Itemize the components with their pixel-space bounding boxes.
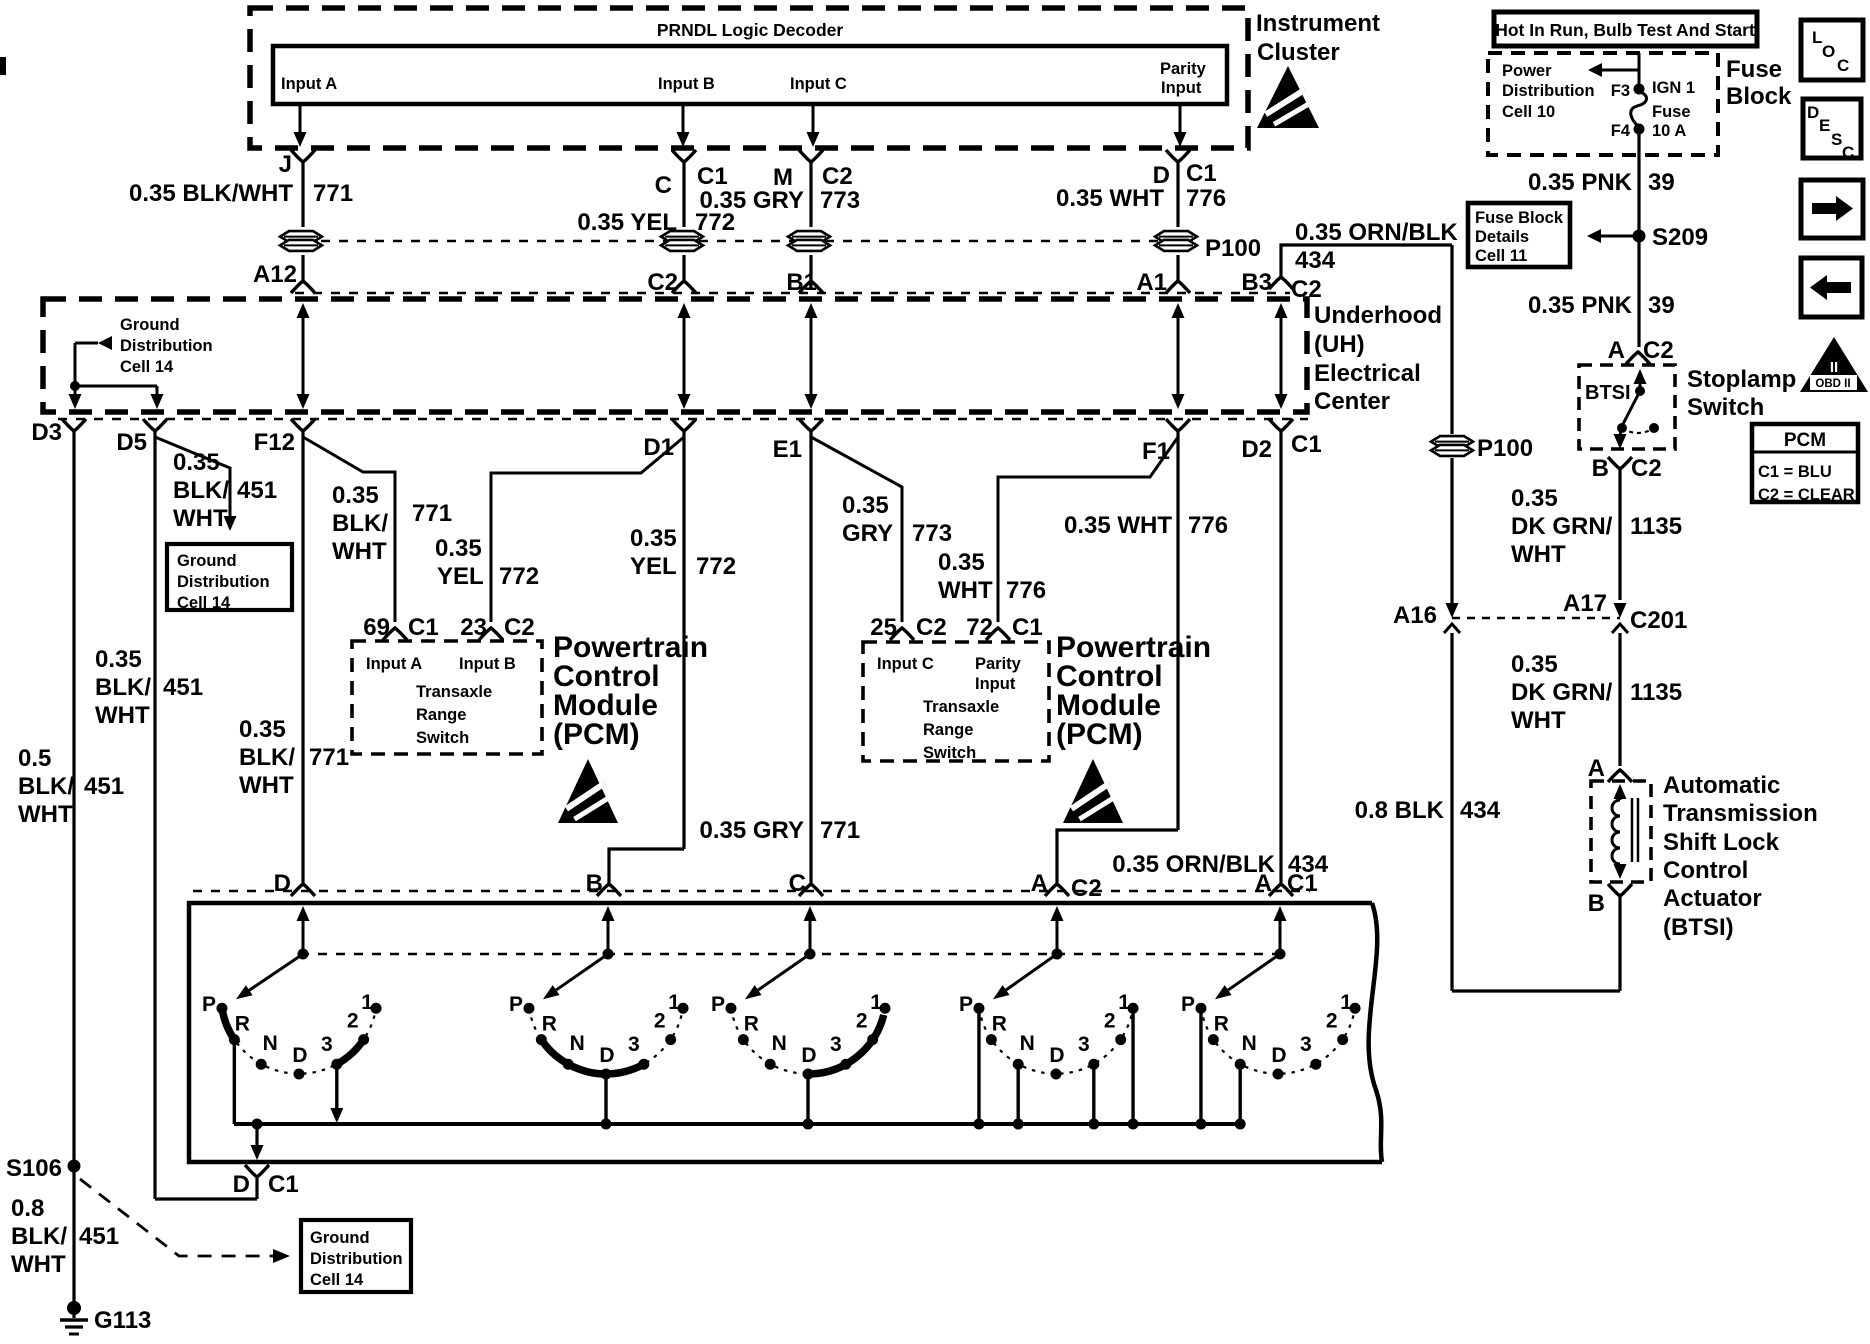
svg-text:451: 451 bbox=[84, 773, 124, 800]
svg-text:Power: Power bbox=[1502, 62, 1552, 80]
svg-text:N: N bbox=[772, 1032, 787, 1055]
svg-text:773: 773 bbox=[912, 520, 952, 547]
svg-text:A17: A17 bbox=[1563, 590, 1607, 617]
svg-text:DK GRN/: DK GRN/ bbox=[1511, 679, 1613, 706]
svg-text:J: J bbox=[279, 151, 292, 178]
svg-text:Stoplamp: Stoplamp bbox=[1687, 366, 1796, 393]
svg-text:N: N bbox=[263, 1032, 278, 1055]
svg-text:PRNDL Logic Decoder: PRNDL Logic Decoder bbox=[657, 20, 844, 40]
svg-text:0.35: 0.35 bbox=[435, 535, 482, 562]
svg-text:WHT: WHT bbox=[1511, 541, 1566, 568]
svg-text:C1: C1 bbox=[268, 1171, 299, 1198]
svg-text:A16: A16 bbox=[1393, 602, 1437, 629]
svg-text:451: 451 bbox=[79, 1223, 119, 1250]
svg-text:25: 25 bbox=[870, 614, 897, 641]
svg-text:C2 = CLEAR: C2 = CLEAR bbox=[1758, 486, 1855, 504]
svg-text:E1: E1 bbox=[773, 436, 802, 463]
svg-text:DK GRN/: DK GRN/ bbox=[1511, 513, 1613, 540]
svg-text:Input A: Input A bbox=[281, 75, 337, 93]
svg-text:1135: 1135 bbox=[1630, 513, 1682, 540]
svg-text:R: R bbox=[1214, 1013, 1229, 1036]
svg-text:F12: F12 bbox=[254, 429, 295, 456]
svg-text:C1: C1 bbox=[1186, 160, 1217, 187]
svg-text:GRY: GRY bbox=[842, 520, 893, 547]
svg-text:451: 451 bbox=[237, 477, 277, 504]
svg-text:0.35 WHT: 0.35 WHT bbox=[1064, 512, 1172, 539]
svg-text:Input B: Input B bbox=[459, 655, 516, 673]
svg-text:Electrical: Electrical bbox=[1314, 360, 1421, 387]
svg-text:BLK/: BLK/ bbox=[173, 477, 229, 504]
svg-text:3: 3 bbox=[321, 1033, 333, 1056]
svg-text:Ground: Ground bbox=[120, 316, 180, 334]
svg-text:WHT: WHT bbox=[332, 538, 387, 565]
svg-text:Parity: Parity bbox=[1160, 60, 1207, 78]
svg-text:WHT: WHT bbox=[18, 801, 73, 828]
svg-text:WHT: WHT bbox=[11, 1251, 66, 1278]
svg-text:Distribution: Distribution bbox=[310, 1250, 403, 1268]
svg-text:0.35: 0.35 bbox=[332, 482, 379, 509]
svg-text:10 A: 10 A bbox=[1652, 122, 1686, 140]
svg-text:OBD II: OBD II bbox=[1815, 378, 1850, 390]
svg-text:Ground: Ground bbox=[310, 1229, 370, 1247]
svg-text:0.35 GRY: 0.35 GRY bbox=[700, 817, 805, 844]
svg-text:C: C bbox=[1837, 56, 1849, 75]
svg-text:Switch: Switch bbox=[416, 729, 469, 747]
svg-text:0.35 GRY: 0.35 GRY bbox=[700, 187, 805, 214]
svg-text:A12: A12 bbox=[253, 261, 297, 288]
svg-text:Cell 14: Cell 14 bbox=[177, 594, 231, 612]
svg-text:R: R bbox=[542, 1013, 557, 1036]
svg-text:39: 39 bbox=[1648, 169, 1675, 196]
svg-text:A: A bbox=[1031, 870, 1048, 897]
svg-text:3: 3 bbox=[1300, 1033, 1312, 1056]
svg-text:0.35: 0.35 bbox=[1511, 485, 1558, 512]
svg-text:Fuse Block: Fuse Block bbox=[1475, 209, 1564, 227]
svg-text:0.5: 0.5 bbox=[18, 745, 51, 772]
svg-text:776: 776 bbox=[1188, 512, 1228, 539]
svg-text:39: 39 bbox=[1648, 292, 1675, 319]
svg-text:C201: C201 bbox=[1630, 607, 1687, 634]
svg-text:F1: F1 bbox=[1142, 438, 1170, 465]
svg-text:C2: C2 bbox=[822, 163, 853, 190]
svg-text:Input A: Input A bbox=[366, 655, 422, 673]
svg-text:Input: Input bbox=[975, 675, 1016, 693]
svg-text:0.8 BLK: 0.8 BLK bbox=[1355, 797, 1445, 824]
svg-text:Cell 14: Cell 14 bbox=[310, 1271, 364, 1289]
svg-text:3: 3 bbox=[628, 1033, 640, 1056]
svg-text:1: 1 bbox=[1340, 991, 1352, 1014]
svg-text:69: 69 bbox=[363, 614, 390, 641]
svg-text:YEL: YEL bbox=[630, 553, 677, 580]
svg-text:3: 3 bbox=[830, 1033, 842, 1056]
svg-text:771: 771 bbox=[309, 744, 349, 771]
svg-text:771: 771 bbox=[412, 500, 452, 527]
svg-text:434: 434 bbox=[1295, 247, 1336, 274]
svg-text:0.35 WHT: 0.35 WHT bbox=[1056, 185, 1164, 212]
svg-text:WHT: WHT bbox=[239, 772, 294, 799]
svg-text:D: D bbox=[1049, 1044, 1064, 1067]
svg-text:0.35: 0.35 bbox=[1511, 651, 1558, 678]
svg-text:0.35: 0.35 bbox=[95, 646, 142, 673]
svg-text:D: D bbox=[233, 1171, 250, 1198]
svg-text:Switch: Switch bbox=[1687, 394, 1764, 421]
svg-text:Details: Details bbox=[1475, 228, 1529, 246]
svg-text:772: 772 bbox=[499, 563, 539, 590]
svg-text:BLK/: BLK/ bbox=[18, 773, 74, 800]
svg-text:S106: S106 bbox=[6, 1155, 62, 1182]
svg-text:BLK/: BLK/ bbox=[332, 510, 388, 537]
svg-text:3: 3 bbox=[1078, 1033, 1090, 1056]
svg-text:YEL: YEL bbox=[437, 563, 484, 590]
svg-text:D5: D5 bbox=[116, 429, 147, 456]
svg-text:D: D bbox=[1807, 103, 1819, 122]
svg-text:(UH): (UH) bbox=[1314, 331, 1365, 358]
svg-text:0.35: 0.35 bbox=[173, 449, 220, 476]
svg-text:Control: Control bbox=[1663, 857, 1748, 884]
svg-text:Block: Block bbox=[1726, 83, 1792, 110]
svg-text:P: P bbox=[959, 993, 973, 1016]
svg-text:WHT: WHT bbox=[1511, 707, 1566, 734]
svg-text:Actuator: Actuator bbox=[1663, 885, 1762, 912]
svg-text:C2: C2 bbox=[1071, 875, 1102, 902]
svg-text:(PCM): (PCM) bbox=[553, 718, 640, 751]
svg-text:773: 773 bbox=[820, 187, 860, 214]
svg-text:A: A bbox=[1608, 337, 1625, 364]
svg-text:A: A bbox=[1255, 870, 1272, 897]
svg-text:Fuse: Fuse bbox=[1652, 103, 1691, 121]
svg-text:F3: F3 bbox=[1611, 82, 1630, 100]
svg-text:Input: Input bbox=[1161, 79, 1202, 97]
svg-text:(BTSI): (BTSI) bbox=[1663, 914, 1734, 941]
svg-text:C2: C2 bbox=[504, 614, 535, 641]
svg-text:C: C bbox=[655, 172, 672, 199]
svg-text:C: C bbox=[1842, 143, 1854, 162]
svg-text:P100: P100 bbox=[1477, 435, 1533, 462]
svg-text:1135: 1135 bbox=[1630, 679, 1682, 706]
svg-text:Shift Lock: Shift Lock bbox=[1663, 829, 1780, 856]
svg-text:2: 2 bbox=[654, 1010, 666, 1033]
svg-text:Transaxle: Transaxle bbox=[416, 683, 492, 701]
svg-text:P: P bbox=[1181, 993, 1195, 1016]
svg-text:Range: Range bbox=[416, 706, 466, 724]
svg-text:Cell 11: Cell 11 bbox=[1475, 247, 1527, 265]
svg-text:2: 2 bbox=[1104, 1010, 1116, 1033]
svg-text:Fuse: Fuse bbox=[1726, 56, 1782, 83]
svg-text:1: 1 bbox=[870, 991, 882, 1014]
svg-text:G113: G113 bbox=[94, 1307, 151, 1334]
svg-text:D2: D2 bbox=[1241, 436, 1272, 463]
svg-text:Hot In Run, Bulb Test And Star: Hot In Run, Bulb Test And Start bbox=[1495, 20, 1755, 40]
svg-text:A: A bbox=[1588, 755, 1605, 782]
svg-text:0.35 YEL: 0.35 YEL bbox=[577, 209, 677, 236]
svg-text:C: C bbox=[789, 870, 806, 897]
svg-text:C2: C2 bbox=[916, 614, 947, 641]
svg-text:WHT: WHT bbox=[95, 702, 150, 729]
svg-text:0.35: 0.35 bbox=[239, 716, 286, 743]
svg-text:Transmission: Transmission bbox=[1663, 800, 1818, 827]
svg-text:IGN 1: IGN 1 bbox=[1652, 79, 1695, 97]
svg-text:C1: C1 bbox=[1291, 431, 1322, 458]
svg-text:Ground: Ground bbox=[177, 552, 237, 570]
svg-text:771: 771 bbox=[820, 817, 860, 844]
svg-text:P: P bbox=[202, 993, 216, 1016]
svg-text:23: 23 bbox=[460, 614, 487, 641]
svg-text:D: D bbox=[274, 870, 291, 897]
svg-text:434: 434 bbox=[1460, 797, 1501, 824]
svg-text:F4: F4 bbox=[1611, 122, 1631, 140]
svg-text:S209: S209 bbox=[1652, 224, 1708, 251]
svg-text:C1: C1 bbox=[408, 614, 439, 641]
svg-text:D3: D3 bbox=[31, 419, 62, 446]
svg-text:C2: C2 bbox=[1631, 455, 1662, 482]
svg-text:0.35 ORN/BLK: 0.35 ORN/BLK bbox=[1295, 219, 1458, 246]
svg-text:72: 72 bbox=[966, 614, 993, 641]
svg-text:Switch: Switch bbox=[923, 744, 976, 762]
svg-text:D: D bbox=[801, 1044, 816, 1067]
svg-text:Underhood: Underhood bbox=[1314, 302, 1442, 329]
svg-text:1: 1 bbox=[668, 991, 680, 1014]
svg-text:Automatic: Automatic bbox=[1663, 772, 1780, 799]
svg-text:B: B bbox=[1588, 890, 1605, 917]
svg-text:Transaxle: Transaxle bbox=[923, 698, 999, 716]
svg-text:0.35 ORN/BLK: 0.35 ORN/BLK bbox=[1112, 851, 1275, 878]
svg-text:Center: Center bbox=[1314, 388, 1390, 415]
svg-text:WHT: WHT bbox=[938, 577, 993, 604]
svg-text:P: P bbox=[711, 993, 725, 1016]
svg-text:Range: Range bbox=[923, 721, 973, 739]
svg-text:B: B bbox=[1592, 455, 1609, 482]
svg-text:N: N bbox=[1242, 1032, 1257, 1055]
svg-text:0.8: 0.8 bbox=[11, 1195, 44, 1222]
svg-text:D: D bbox=[292, 1044, 307, 1067]
svg-text:P: P bbox=[509, 993, 523, 1016]
svg-text:Cell 10: Cell 10 bbox=[1502, 103, 1555, 121]
svg-text:2: 2 bbox=[1326, 1010, 1338, 1033]
svg-text:Input B: Input B bbox=[658, 75, 715, 93]
svg-text:Parity: Parity bbox=[975, 655, 1022, 673]
svg-text:1: 1 bbox=[1118, 991, 1130, 1014]
svg-text:D: D bbox=[599, 1044, 614, 1067]
svg-text:772: 772 bbox=[696, 553, 736, 580]
svg-text:N: N bbox=[1020, 1032, 1035, 1055]
svg-text:2: 2 bbox=[347, 1010, 359, 1033]
svg-text:0.35: 0.35 bbox=[630, 525, 677, 552]
svg-text:771: 771 bbox=[313, 180, 353, 207]
svg-text:PCM: PCM bbox=[1784, 430, 1826, 451]
svg-text:BLK/: BLK/ bbox=[11, 1223, 67, 1250]
svg-text:2: 2 bbox=[856, 1010, 868, 1033]
svg-text:BLK/: BLK/ bbox=[95, 674, 151, 701]
svg-text:0.35: 0.35 bbox=[938, 549, 985, 576]
svg-text:C1: C1 bbox=[697, 163, 728, 190]
svg-text:R: R bbox=[744, 1013, 759, 1036]
svg-text:N: N bbox=[570, 1032, 585, 1055]
svg-text:Input C: Input C bbox=[790, 75, 847, 93]
svg-text:D: D bbox=[1271, 1044, 1286, 1067]
svg-text:Cell 14: Cell 14 bbox=[120, 358, 174, 376]
svg-text:S: S bbox=[1831, 130, 1842, 149]
svg-text:0.35 PNK: 0.35 PNK bbox=[1528, 169, 1633, 196]
svg-text:0.35: 0.35 bbox=[842, 492, 889, 519]
svg-text:WHT: WHT bbox=[173, 505, 228, 532]
svg-text:II: II bbox=[1830, 359, 1838, 376]
svg-text:776: 776 bbox=[1186, 185, 1226, 212]
svg-text:E: E bbox=[1819, 116, 1830, 135]
svg-text:R: R bbox=[235, 1013, 250, 1036]
svg-text:1: 1 bbox=[361, 991, 373, 1014]
svg-text:(PCM): (PCM) bbox=[1056, 718, 1143, 751]
svg-text:C1: C1 bbox=[1287, 870, 1318, 897]
svg-text:451: 451 bbox=[163, 674, 203, 701]
svg-text:C1 = BLU: C1 = BLU bbox=[1758, 463, 1832, 481]
svg-text:O: O bbox=[1822, 42, 1835, 61]
svg-text:Input C: Input C bbox=[877, 655, 934, 673]
svg-text:BLK/: BLK/ bbox=[239, 744, 295, 771]
svg-text:P100: P100 bbox=[1205, 235, 1261, 262]
svg-text:B: B bbox=[586, 870, 603, 897]
svg-text:Instrument: Instrument bbox=[1256, 10, 1380, 37]
svg-text:C1: C1 bbox=[1012, 614, 1043, 641]
svg-text:L: L bbox=[1812, 28, 1822, 47]
svg-text:BTSI: BTSI bbox=[1585, 382, 1631, 404]
svg-text:Cluster: Cluster bbox=[1257, 39, 1340, 66]
svg-text:Distribution: Distribution bbox=[177, 573, 270, 591]
svg-text:776: 776 bbox=[1006, 577, 1046, 604]
svg-text:R: R bbox=[992, 1013, 1007, 1036]
svg-text:Distribution: Distribution bbox=[1502, 82, 1595, 100]
svg-text:0.35 BLK/WHT: 0.35 BLK/WHT bbox=[129, 180, 293, 207]
svg-text:0.35 PNK: 0.35 PNK bbox=[1528, 292, 1633, 319]
svg-text:Distribution: Distribution bbox=[120, 337, 213, 355]
